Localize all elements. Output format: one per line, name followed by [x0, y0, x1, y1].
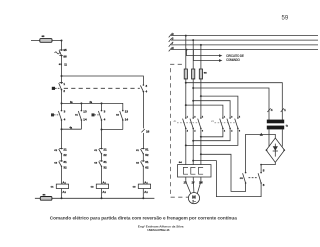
contact d1 timer 15-16: [141, 129, 144, 132]
svg-text:1: 1: [63, 82, 65, 86]
wire motor lead 2W: [197, 177, 201, 194]
svg-text:Comando elétrico para partida: Comando elétrico para partida direta com…: [50, 216, 237, 221]
wire motor lead 2U: [186, 177, 191, 194]
svg-text:c2: c2: [211, 119, 215, 123]
wire c2 pole1 return crossover: [201, 128, 223, 136]
fuse e33 L3: [199, 69, 202, 79]
wire c2 pole3 return crossover: [186, 128, 238, 145]
svg-text:4: 4: [271, 108, 273, 112]
wire bottom return rail: [35, 197, 154, 199]
wire column1 upper: [61, 41, 63, 50]
node DC positive arrow: [260, 133, 263, 136]
wire c2 pole2 return crossover: [193, 128, 230, 140]
terminal slash feed left: [267, 108, 270, 112]
svg-text:31: 31: [63, 160, 67, 164]
pushbutton b1 head: [51, 113, 54, 116]
wire secondary right to bridge: [281, 129, 283, 146]
node junction crossover bottom L1: [185, 144, 187, 146]
transformer t1 primary winding: [267, 120, 284, 124]
pushbutton b2 NO contact start reverse: [101, 103, 103, 110]
coil c3 contactor braking: [138, 184, 150, 188]
svg-text:14: 14: [83, 117, 87, 121]
node junction rail N tap: [186, 49, 188, 51]
wire transformer feed 1: [186, 83, 282, 121]
wire column1 to coil c1: [61, 166, 63, 184]
svg-text:e5: e5: [42, 34, 46, 38]
contact c3a DC injection: [243, 173, 246, 183]
svg-text:A1: A1: [102, 180, 106, 184]
supply rail T: [171, 44, 318, 46]
wire tie2: [102, 129, 123, 131]
node junction seal bus c1 branch: [80, 102, 82, 104]
wire braking tap col3 to c3a bottom: [201, 154, 246, 191]
node junction L1 crossover: [185, 104, 187, 106]
wire column1 middle: [61, 129, 63, 148]
svg-text:31: 31: [103, 160, 107, 164]
wire braking tap col2 to c3b bottom: [193, 161, 261, 197]
svg-text:32: 32: [103, 166, 107, 170]
wire column1 to seal bus: [61, 90, 63, 111]
wire tie1: [62, 128, 82, 130]
svg-text:2W: 2W: [199, 182, 203, 185]
mechanical linkage dashed c2 poles: [215, 122, 237, 124]
svg-text:c1: c1: [94, 148, 98, 152]
contactor c1 main contact pole 3: [198, 119, 201, 129]
thermal overload NC contact e1 95-96: [59, 50, 62, 55]
node junction braking tap: [200, 153, 202, 155]
svg-text:61: 61: [145, 160, 149, 164]
svg-text:e3: e3: [204, 71, 208, 75]
pushbutton b2 head: [92, 113, 95, 116]
wire drop L1: [185, 36, 187, 69]
rectifier bridge diamond: [266, 138, 284, 162]
supply rail N: [171, 49, 318, 51]
svg-text:95: 95: [63, 48, 67, 52]
motor M 3-phase: [188, 193, 199, 204]
svg-text:62: 62: [145, 166, 149, 170]
svg-text:13: 13: [83, 109, 87, 113]
svg-text:14: 14: [125, 117, 129, 121]
overload heater pole 3: [199, 167, 204, 174]
svg-text:c3: c3: [133, 184, 137, 188]
wire column3 middle: [142, 92, 144, 129]
wire c1 pole3 to overload: [200, 128, 202, 164]
svg-text:e6: e6: [43, 193, 47, 197]
svg-text:t1: t1: [286, 124, 289, 128]
wire seal bus: [62, 103, 123, 110]
contactor c2 main contact pole 3: [235, 119, 238, 129]
svg-text:COMANDO: COMANDO: [226, 58, 241, 62]
wire b2 to tie2: [101, 120, 103, 130]
wire rung to column3: [62, 76, 144, 85]
svg-text:2: 2: [63, 89, 65, 93]
coil c1 contactor forward: [56, 184, 68, 188]
svg-text:A1: A1: [62, 180, 66, 184]
svg-text:4: 4: [146, 90, 148, 94]
svg-text:S: S: [172, 36, 174, 40]
svg-text:4: 4: [194, 130, 196, 133]
wire drop L2: [192, 40, 194, 69]
svg-text:51: 51: [145, 147, 149, 151]
wire column1 below thermal contact: [61, 56, 63, 83]
interlock contact c3 31-32 on column1: [59, 162, 62, 167]
node junction tie1 left: [61, 128, 63, 130]
overload heater pole 2: [191, 167, 196, 174]
interlock contact c2 61-62 on column3: [141, 162, 144, 167]
node bridge right corner: [283, 149, 285, 151]
contactor c1 main contact pole 2: [190, 119, 193, 129]
fuse e32 L2: [192, 69, 195, 79]
svg-text:A2: A2: [102, 190, 106, 194]
svg-text:5: 5: [263, 169, 265, 173]
svg-text:21: 21: [103, 147, 107, 151]
wire command circuit tap 2 with arrow: [193, 50, 219, 61]
svg-text:c3: c3: [94, 161, 98, 165]
node junction braking tap col2: [192, 160, 194, 162]
overload heater pole 1: [183, 167, 188, 174]
svg-text:52: 52: [145, 153, 149, 157]
fuse e31 L1: [184, 69, 187, 79]
svg-text:2: 2: [224, 131, 226, 133]
wire crossover L1 to c2: [186, 105, 223, 118]
node junction top of column 1: [61, 40, 63, 42]
svg-text:3: 3: [194, 116, 196, 118]
svg-text:21: 21: [63, 147, 67, 151]
svg-text:A1: A1: [144, 180, 148, 184]
interlock contact c1 21-22 on column2: [99, 149, 102, 154]
pushbutton b0 head: [52, 87, 55, 90]
svg-text:4: 4: [64, 117, 66, 121]
mechanical linkage dashed c3a c3b: [249, 177, 259, 179]
contactor c2 main contact pole 1: [220, 119, 223, 129]
wire secondary left to bridge: [268, 129, 270, 147]
node junction L3 crossover: [200, 95, 202, 97]
fuse e5 control circuit fuse: [40, 39, 52, 43]
node junction branch to right rung: [61, 75, 63, 77]
svg-text:A2: A2: [62, 190, 66, 194]
boundary dashed control-power: [171, 64, 189, 197]
svg-text:c1: c1: [75, 113, 79, 117]
svg-text:4: 4: [104, 117, 106, 121]
pushbutton b0 NC contact: [59, 83, 62, 90]
node junction rail R drop L1: [185, 35, 187, 37]
svg-text:3~: 3~: [192, 199, 196, 203]
svg-text:22: 22: [63, 153, 67, 157]
node bridge left corner: [266, 149, 268, 151]
node junction rail T drop L3: [200, 44, 202, 46]
svg-text:16: 16: [146, 130, 150, 134]
svg-text:59: 59: [282, 15, 289, 21]
svg-text:1: 1: [187, 116, 189, 118]
svg-text:6: 6: [263, 183, 265, 187]
wire column2 middle: [101, 130, 103, 149]
svg-text:c3: c3: [240, 176, 244, 180]
svg-text:c1: c1: [174, 119, 178, 123]
node junction rail col2: [101, 197, 103, 199]
svg-text:e1: e1: [59, 62, 63, 66]
node junction crossover bottom L3: [200, 136, 202, 138]
svg-text:5: 5: [239, 116, 241, 118]
svg-text:1: 1: [224, 116, 226, 118]
terminal slash feed right: [281, 108, 284, 112]
node junction crossover bottom L2: [192, 140, 194, 142]
svg-text:32: 32: [63, 166, 67, 170]
contactor c1 main contact pole 1: [183, 119, 186, 129]
transformer t1 secondary winding: [267, 126, 284, 130]
wire column2 to coil c2: [101, 166, 103, 184]
wire crossover L3 to c2: [201, 96, 238, 118]
contact c1 seal 13-14: [80, 103, 82, 110]
svg-text:96: 96: [63, 55, 67, 59]
wire b1 to tie: [61, 120, 63, 129]
svg-text:c2: c2: [91, 184, 95, 188]
contact c2 seal 13-14: [120, 111, 123, 120]
wire L1 below fuse: [185, 78, 187, 117]
mechanical linkage dashed b0 to b3: [64, 87, 140, 89]
svg-text:3: 3: [64, 109, 66, 113]
node DC negative mark: [260, 164, 262, 166]
diode inside bridge: [274, 144, 276, 157]
svg-text:3: 3: [104, 109, 106, 113]
fuse e6 on return rail: [40, 197, 52, 201]
svg-text:11: 11: [64, 63, 67, 66]
node junction L1 transformer feed: [185, 82, 187, 84]
node junction L2 transformer feed: [192, 87, 194, 89]
wire c1 pole2 to overload: [192, 128, 194, 164]
coil c2 contactor reverse: [96, 184, 108, 188]
wire motor lead 2V: [192, 177, 195, 193]
wire crossover L2 to c2: [193, 101, 230, 118]
svg-text:N: N: [172, 46, 174, 50]
wire command circuit tap 1 with arrow: [187, 50, 220, 56]
node junction rail S drop L2: [192, 39, 194, 41]
wire DC negative from bridge to contact c3b: [261, 162, 275, 172]
wire DC positive from bridge to contact c3a: [246, 134, 276, 172]
svg-text:2U: 2U: [184, 182, 187, 185]
svg-text:2: 2: [187, 131, 189, 133]
wire c1 pole1 to overload: [185, 128, 187, 164]
svg-text:c3: c3: [54, 161, 58, 165]
svg-text:e4: e4: [179, 160, 183, 164]
svg-text:UNESA-07/Mar-16: UNESA-07/Mar-16: [147, 228, 170, 232]
supply rail R: [171, 35, 318, 37]
node junction seal bus col1: [61, 102, 63, 104]
contact c3b DC injection: [258, 173, 261, 183]
wire fuse to node: [52, 40, 62, 42]
wire control feed left: [31, 40, 40, 42]
svg-text:c1: c1: [51, 184, 55, 188]
interlock contact c2 21-22 on column1: [59, 149, 62, 154]
overload relay e4 box: [178, 165, 212, 177]
svg-text:4: 4: [231, 130, 233, 133]
svg-text:c1: c1: [136, 148, 140, 152]
node junction tie2 left: [101, 129, 103, 131]
svg-text:6: 6: [202, 131, 204, 133]
svg-text:c2: c2: [136, 161, 140, 165]
pushbutton b1 NO contact start forward: [58, 111, 61, 120]
interlock contact c3 31-32 on column2: [99, 162, 102, 167]
node junction L2 crossover: [192, 100, 194, 102]
contact b3 NO braking button on column3: [140, 85, 143, 91]
svg-text:13: 13: [125, 109, 129, 113]
svg-text:A2: A2: [144, 190, 148, 194]
node junction rail col3: [142, 197, 144, 199]
node junction seal bus col2: [101, 102, 103, 104]
svg-text:3: 3: [146, 84, 148, 88]
svg-text:1: 1: [284, 108, 286, 112]
wire L3 below fuse: [200, 78, 202, 117]
svg-text:2V: 2V: [192, 182, 195, 185]
svg-text:22: 22: [103, 153, 107, 157]
wire transformer feed 2: [193, 88, 269, 120]
svg-text:6: 6: [239, 131, 241, 133]
wire drop L3: [200, 45, 202, 69]
wire column3 to coil c3: [142, 166, 144, 184]
svg-text:5: 5: [202, 116, 204, 118]
node junction rail col1: [61, 197, 63, 199]
wire column3 lower: [142, 133, 144, 148]
supply rail S: [171, 39, 318, 41]
svg-text:c2: c2: [54, 148, 58, 152]
svg-text:c2: c2: [116, 113, 120, 117]
wire L2 below fuse: [192, 78, 194, 117]
mechanical linkage dashed c1 poles: [177, 122, 200, 124]
contactor c2 main contact pole 2: [227, 119, 230, 129]
interlock contact c1 51-52 on column3: [141, 149, 144, 154]
svg-text:R: R: [172, 32, 174, 36]
svg-text:3: 3: [231, 116, 233, 118]
